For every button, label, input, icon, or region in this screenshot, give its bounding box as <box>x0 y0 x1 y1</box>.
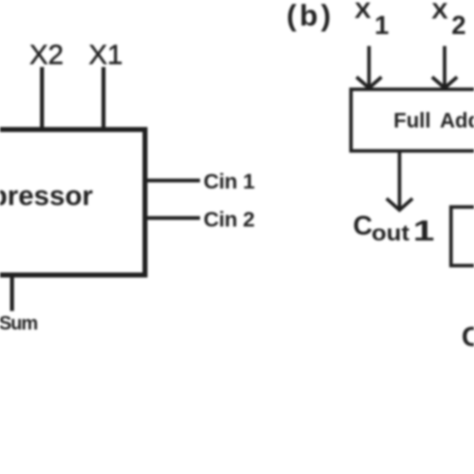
svg-text:Sum: Sum <box>0 314 37 335</box>
svg-text:out: out <box>372 221 411 246</box>
svg-text:1: 1 <box>413 216 435 248</box>
svg-text:X: X <box>355 0 372 23</box>
svg-text:2: 2 <box>452 10 467 40</box>
svg-text:Compressor: Compressor <box>0 180 93 211</box>
svg-text:C: C <box>353 211 373 241</box>
svg-text:Full Adder: Full Adder <box>394 110 474 133</box>
svg-text:Cin 2: Cin 2 <box>204 208 255 232</box>
svg-text:X2: X2 <box>29 39 63 70</box>
svg-text:X: X <box>432 0 449 24</box>
svg-text:C: C <box>462 321 474 352</box>
svg-text:(b): (b) <box>287 0 334 33</box>
svg-text:1: 1 <box>375 10 389 40</box>
svg-text:X1: X1 <box>89 39 123 70</box>
svg-text:Cin 1: Cin 1 <box>204 170 255 194</box>
